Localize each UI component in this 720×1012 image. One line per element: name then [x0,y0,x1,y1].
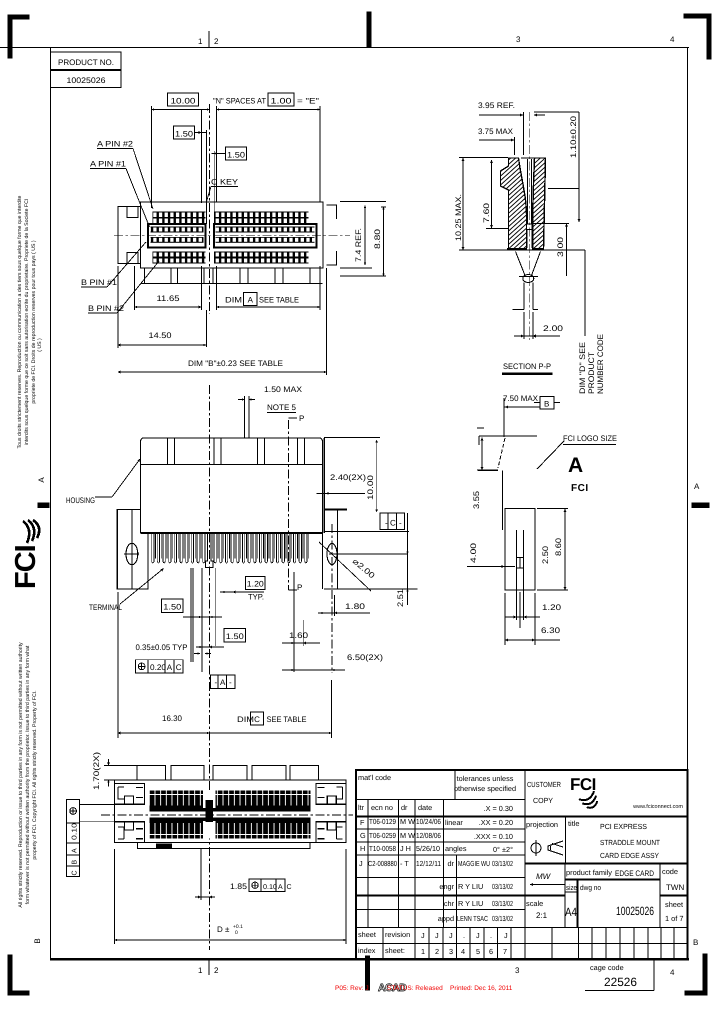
svg-text:C2-008880: C2-008880 [368,859,397,868]
svg-text:03/13/02: 03/13/02 [492,914,513,923]
svg-text:J: J [359,859,363,868]
svg-text:J H: J H [400,844,411,853]
svg-text:F: F [360,818,365,827]
svg-text:10025026: 10025026 [616,904,654,918]
svg-text:.: . [463,931,465,940]
svg-text:03/13/02: 03/13/02 [492,882,513,891]
svg-text:A: A [694,482,700,491]
svg-text:B PIN #1: B PIN #1 [81,278,118,287]
svg-text:A: A [220,678,226,687]
svg-text:7.60: 7.60 [482,202,491,223]
svg-text:date: date [418,803,432,812]
svg-text:= "E": = "E" [297,97,319,106]
svg-text:MW: MW [536,872,552,881]
svg-text:C KEY: C KEY [211,178,239,187]
svg-text:7.50 MAX: 7.50 MAX [503,394,539,403]
svg-text:NUMBER CODE: NUMBER CODE [596,334,605,394]
svg-text:B: B [544,400,549,409]
svg-text:Printed: Dec 16, 2011: Printed: Dec 16, 2011 [450,985,513,992]
svg-text:DIM: DIM [237,715,254,724]
svg-text:-: - [215,678,218,687]
svg-text:FCI LOGO SIZE: FCI LOGO SIZE [563,434,617,443]
svg-text:10/24/06: 10/24/06 [416,817,441,826]
svg-text:6.50(2X): 6.50(2X) [347,653,383,662]
svg-text:1.20: 1.20 [542,603,562,612]
svg-text:TERMINAL: TERMINAL [89,603,122,612]
svg-text:1: 1 [198,37,203,46]
svg-text:J: J [449,931,453,940]
svg-text:A PIN #2: A PIN #2 [97,140,134,149]
svg-text:3: 3 [516,35,521,44]
svg-text:.XX = 0.20: .XX = 0.20 [479,818,513,827]
svg-text:PRODUCT NO.: PRODUCT NO. [58,58,114,67]
svg-text:2: 2 [214,37,219,46]
svg-text:7.4 REF.: 7.4 REF. [354,228,363,262]
svg-text:4: 4 [461,947,465,956]
svg-text:property of FCI. Copy: property of FCI. Copyright FCI. All righ… [32,690,38,859]
svg-text:otherwise specified: otherwise specified [454,784,516,793]
svg-text:HOUSING: HOUSING [66,496,95,505]
svg-text:6.30: 6.30 [541,626,561,635]
svg-text:G: G [360,831,366,840]
svg-text:22526: 22526 [604,975,637,989]
svg-text:B: B [693,938,698,947]
svg-text:1.10±0.20: 1.10±0.20 [569,115,578,158]
svg-text:2: 2 [214,966,219,975]
svg-text:10.00: 10.00 [171,97,197,106]
svg-text:.XXX = 0.10: .XXX = 0.10 [474,832,513,841]
svg-text:2: 2 [435,947,439,956]
svg-text:M W: M W [400,831,415,840]
svg-text:ecn no: ecn no [371,803,393,812]
svg-text:"N" SPACES AT: "N" SPACES AT [213,97,266,106]
svg-text:B PIN #2: B PIN #2 [88,304,125,313]
svg-text:5: 5 [476,947,480,956]
svg-text:-: - [229,678,232,687]
svg-text:J: J [476,931,480,940]
svg-text:R Y LIU: R Y LIU [458,899,483,908]
svg-text:.X = 0.30: .X = 0.30 [484,804,513,813]
svg-text:form whatever is not permitted: form whatever is not permitted without w… [25,645,31,904]
svg-text:A: A [568,454,583,477]
svg-text:1: 1 [421,947,425,956]
svg-text:14.50: 14.50 [149,331,173,340]
svg-text:tolerances unless: tolerances unless [457,774,514,783]
svg-text:angles: angles [445,844,467,853]
svg-text:1: 1 [198,966,203,975]
svg-text:0.35±0.05 TYP: 0.35±0.05 TYP [136,643,188,652]
svg-text:16.30: 16.30 [162,714,183,723]
svg-text:title: title [568,819,580,828]
svg-text:- T: - T [400,859,409,868]
svg-text:C: C [254,715,260,724]
svg-text:PRODUCT: PRODUCT [587,352,596,394]
svg-text:0.10: 0.10 [72,823,79,840]
svg-text:R Y LIU: R Y LIU [458,882,483,891]
svg-text:T06-0129: T06-0129 [369,817,396,826]
svg-text:index: index [358,946,376,955]
svg-text:STATUS: Released: STATUS: Released [387,985,443,992]
svg-text:3: 3 [449,947,453,956]
svg-text:sheet: sheet [358,930,376,939]
svg-text:3.75 MAX: 3.75 MAX [478,127,514,136]
svg-text:1.50: 1.50 [227,151,246,160]
svg-text:1.85: 1.85 [230,882,248,891]
svg-text:T10-0058: T10-0058 [369,844,396,853]
svg-text:DIM "B"±0.23 SEE TABLE: DIM "B"±0.23 SEE TABLE [188,359,283,368]
svg-text:A: A [37,477,46,483]
svg-text:DIM: DIM [225,296,242,305]
svg-text:12/12/11: 12/12/11 [416,859,441,868]
svg-text:1.50: 1.50 [226,632,245,641]
svg-text:A PIN #1: A PIN #1 [90,160,127,169]
svg-text:EDGE CARD: EDGE CARD [615,869,654,878]
svg-text:03/13/02: 03/13/02 [492,859,513,868]
svg-text:4: 4 [670,35,675,44]
svg-text:J: J [435,931,439,940]
svg-text:size: size [566,883,577,892]
svg-text:interdits sous quelque forme q: interdits sous quelque forme que ce soit… [24,199,30,446]
svg-text:1.60: 1.60 [289,631,309,640]
svg-text:3: 3 [515,966,520,975]
svg-text:sheet: sheet [665,900,683,909]
svg-text:SECTION P-P: SECTION P-P [503,362,551,371]
svg-text:code: code [662,867,678,876]
svg-text:1.50: 1.50 [175,130,194,139]
svg-text:C: C [176,663,182,672]
svg-text:1.50 MAX: 1.50 MAX [264,385,303,394]
svg-text:FCI: FCI [10,545,42,589]
svg-text:dr: dr [448,859,455,868]
svg-text:A: A [167,663,173,672]
svg-text:TYP.: TYP. [248,593,264,602]
svg-text:M W: M W [400,817,415,826]
svg-text:10025026: 10025026 [67,76,107,85]
svg-text:chr: chr [444,899,455,908]
svg-text:3.55: 3.55 [472,490,481,509]
svg-text:7: 7 [503,947,507,956]
svg-text:propriete de FCI. Dro: propriete de FCI. Droits de reproduction… [31,240,37,403]
svg-text:sheet:: sheet: [385,946,405,955]
svg-text:3.00: 3.00 [556,236,565,257]
svg-text:8.80: 8.80 [373,228,382,249]
svg-text:A: A [278,884,283,891]
svg-text:LENN TSAC: LENN TSAC [457,914,488,923]
svg-text:11.65: 11.65 [157,294,181,303]
svg-text:P: P [297,583,302,592]
svg-text:MAGGIE WU: MAGGIE WU [458,859,490,868]
svg-text:B: B [33,938,42,943]
svg-text:2.00: 2.00 [543,324,564,333]
svg-text:PCI EXPRESS: PCI EXPRESS [600,822,647,831]
svg-text:-: - [385,519,388,528]
svg-text:appd: appd [438,914,454,923]
svg-text:mat'l code: mat'l code [358,773,391,782]
svg-text:H: H [360,844,365,853]
svg-text:FCI: FCI [571,483,589,494]
svg-text:6: 6 [489,947,493,956]
svg-text:SEE TABLE: SEE TABLE [259,296,299,305]
svg-text:12/08/06: 12/08/06 [416,831,441,840]
svg-text:www.fciconnect.com: www.fciconnect.com [632,804,683,810]
svg-text:engr: engr [439,882,454,891]
svg-text:dr: dr [401,803,408,812]
svg-text:1.70(2X): 1.70(2X) [92,752,101,790]
svg-text:A: A [72,848,79,853]
svg-text:0: 0 [235,930,238,936]
svg-text:All rights strictly reserved.: All rights strictly reserved. Reproducti… [18,642,24,908]
svg-text:2.51: 2.51 [396,588,405,607]
svg-text:CUSTOMER: CUSTOMER [527,780,561,789]
svg-text:2.40(2X): 2.40(2X) [330,473,366,482]
svg-text:TWN: TWN [666,883,684,892]
svg-text:SEE TABLE: SEE TABLE [267,715,307,724]
svg-text:( US ): ( US ) [37,338,43,352]
svg-text:2.50: 2.50 [541,545,550,564]
svg-text:0.10: 0.10 [263,884,277,891]
svg-text:0° ±2°: 0° ±2° [493,845,513,854]
svg-text:4.00: 4.00 [469,542,478,563]
svg-text:Tous droits strictement reserv: Tous droits strictement reserves. Reprod… [17,195,23,448]
svg-text:scale: scale [526,899,543,908]
svg-text:D ±: D ± [217,925,230,934]
svg-text:FCI: FCI [570,775,596,794]
svg-text:10.00: 10.00 [366,474,375,500]
svg-text:B: B [72,860,79,865]
svg-text:03/13/02: 03/13/02 [492,899,513,908]
svg-text:linear: linear [445,818,463,827]
svg-text:T06-0259: T06-0259 [369,831,396,840]
svg-text:A: A [248,296,254,305]
svg-text:1.50: 1.50 [163,603,182,612]
svg-text:8.60: 8.60 [554,537,563,556]
svg-text:P05: Rev: J: P05: Rev: J [335,985,369,992]
svg-text:4: 4 [670,968,675,977]
svg-text:10.25 MAX.: 10.25 MAX. [454,194,463,241]
svg-text:product family: product family [566,868,612,877]
svg-text:revision: revision [385,930,410,939]
svg-text:1.20: 1.20 [247,580,265,589]
svg-text:.: . [490,931,492,940]
svg-text:dwg no: dwg no [580,883,601,892]
svg-text:CARD EDGE ASSY: CARD EDGE ASSY [600,851,659,860]
svg-text:1 of 7: 1 of 7 [665,914,684,923]
svg-text:DIM "D" SEE: DIM "D" SEE [578,342,587,394]
svg-text:A4: A4 [565,905,577,919]
svg-text:NOTE 5: NOTE 5 [267,403,297,412]
svg-text:ltr: ltr [358,803,365,812]
svg-text:P: P [299,414,304,423]
svg-text:5/26/10: 5/26/10 [416,844,440,853]
svg-text:1.00: 1.00 [271,97,293,106]
svg-text:C: C [72,870,79,875]
svg-text:cage code: cage code [590,963,624,972]
svg-text:C: C [390,519,396,528]
svg-text:J: J [421,931,425,940]
svg-text:STRADDLE MOUNT: STRADDLE MOUNT [600,838,660,847]
svg-text:2:1: 2:1 [536,911,548,920]
svg-text:J: J [504,931,508,940]
svg-text:C: C [287,884,292,891]
svg-text:1.80: 1.80 [345,602,366,611]
svg-text:3.95 REF.: 3.95 REF. [478,101,515,110]
svg-text:-: - [399,519,402,528]
svg-text:COPY: COPY [533,796,553,805]
svg-text:0.20: 0.20 [150,663,167,672]
svg-text:projection: projection [526,820,558,829]
